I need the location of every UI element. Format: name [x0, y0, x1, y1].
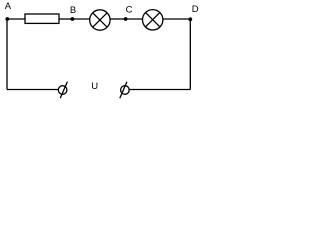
lamp E1	[90, 10, 110, 30]
terminal T2	[120, 82, 129, 99]
wire resistor to B	[59, 18, 72, 20]
wire B to lamp E1	[72, 18, 89, 20]
svg-text:U: U	[91, 81, 98, 92]
wire bottom right	[129, 89, 190, 91]
wire lamp E1 to C	[110, 18, 125, 20]
svg-text:A: A	[5, 1, 12, 12]
node D	[188, 17, 192, 21]
wire right vertical	[189, 19, 191, 89]
svg-text:C: C	[126, 4, 133, 15]
svg-text:D: D	[192, 4, 199, 15]
node B	[71, 17, 75, 21]
wire left vertical	[6, 19, 8, 90]
wire C to lamp E2	[126, 18, 143, 20]
lamp E2	[143, 10, 163, 30]
node A	[5, 17, 9, 21]
terminal T1	[58, 82, 67, 99]
node C	[124, 17, 128, 21]
wire A to resistor	[7, 18, 25, 20]
wire lamp E2 to D	[163, 18, 190, 20]
svg-text:B: B	[70, 5, 76, 16]
wire bottom left	[7, 89, 58, 91]
resistor	[25, 14, 59, 23]
